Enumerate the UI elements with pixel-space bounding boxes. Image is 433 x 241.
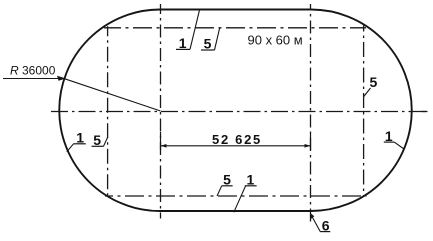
svg-text:5: 5 (370, 74, 378, 90)
right label 1 with underline and leader to outline (384, 128, 404, 149)
svg-text:1: 1 (179, 35, 187, 51)
dimension line 52 625 between arc centres (161, 132, 311, 150)
top label 1 with underline and leader to outline (176, 10, 200, 51)
field rectangle left vertical axis (107, 26, 109, 197)
svg-text:5: 5 (223, 172, 231, 188)
label 6 with underline and arrow leader to track joint (311, 213, 331, 233)
vertical axis line through right arc centre (310, 4, 312, 222)
svg-text:1: 1 (385, 128, 393, 144)
vertical axis line through left arc centre (160, 4, 162, 219)
svg-text:5: 5 (93, 132, 101, 148)
centre axis right end tail (422, 111, 428, 113)
radius leader R 36000: shelf, arrowhead at arc, line to arc centre (3, 76, 161, 111)
bottom label 5 with underline and leader to field axis (217, 172, 233, 197)
left label 5 with underline and leader to field axis (92, 132, 108, 148)
svg-text:90 x 60 м: 90 x 60 м (248, 32, 303, 47)
field rectangle top horizontal axis (104, 27, 366, 29)
stadium outline (running track edge) (59, 10, 411, 212)
svg-text:1: 1 (76, 129, 84, 145)
horizontal centre axis line (50, 111, 428, 113)
svg-text:52 625: 52 625 (212, 132, 262, 147)
field rectangle right vertical axis (363, 26, 365, 197)
bottom label 1 with underline and leader to outline (234, 172, 257, 213)
right label 5 with leader to field axis (364, 74, 378, 97)
left label 1 with underline and leader to outline (67, 129, 86, 151)
field rectangle bottom horizontal axis (105, 195, 367, 197)
svg-text:5: 5 (204, 35, 212, 51)
svg-text:1: 1 (247, 172, 255, 188)
top label 5 with underline and leader to top axis (201, 28, 220, 52)
svg-text:R 36000: R 36000 (10, 64, 56, 78)
